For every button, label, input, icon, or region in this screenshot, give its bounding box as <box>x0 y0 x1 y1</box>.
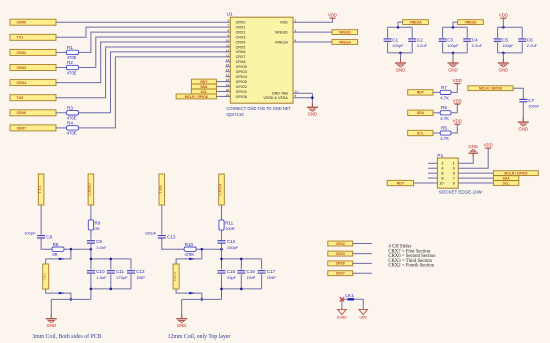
svg-text:RDY: RDY <box>397 181 405 185</box>
svg-text:SDA: SDA <box>503 176 511 180</box>
svg-text:13: 13 <box>226 53 230 57</box>
svg-text:VDD: VDD <box>453 119 462 124</box>
svg-text:4.7K: 4.7K <box>440 136 449 141</box>
svg-text:C10: C10 <box>96 269 105 274</box>
svg-text:TX5: TX5 <box>17 96 24 100</box>
svg-text:TX5: TX5 <box>158 185 163 194</box>
svg-text:SCL: SCL <box>417 131 424 135</box>
svg-text:R9: R9 <box>95 221 101 226</box>
svg-text:C1: C1 <box>392 37 398 42</box>
svg-text:R4: R4 <box>67 121 73 126</box>
svg-text:CRX0: CRX0 <box>17 21 27 25</box>
svg-text:CRX5: CRX5 <box>236 45 246 49</box>
svg-text:GPIO4: GPIO4 <box>236 75 247 79</box>
svg-text:100pF: 100pF <box>392 43 404 48</box>
svg-text:VDD: VDD <box>280 21 288 25</box>
svg-text:R7: R7 <box>441 85 447 90</box>
svg-text:2.2uF: 2.2uF <box>417 43 428 48</box>
svg-text:CRX2: CRX2 <box>236 30 246 34</box>
svg-text:470K: 470K <box>185 252 195 257</box>
svg-text:CRX6: CRX6 <box>336 262 345 266</box>
svg-text:GPIO6: GPIO6 <box>236 95 247 99</box>
svg-text:C14: C14 <box>227 239 236 244</box>
svg-text:CRX7: CRX7 <box>236 55 246 59</box>
svg-text:100pF: 100pF <box>145 231 157 236</box>
svg-text:100R: 100R <box>225 226 235 231</box>
svg-text:VDD: VDD <box>499 13 508 18</box>
svg-text:R3: R3 <box>67 105 73 110</box>
svg-text:CRX3: CRX3 <box>236 35 246 39</box>
svg-text:C7: C7 <box>528 98 534 103</box>
svg-text:C2: C2 <box>417 37 423 42</box>
svg-text:GND: GND <box>499 67 509 72</box>
svg-text:R11: R11 <box>225 221 234 226</box>
svg-text:GND: GND <box>396 67 406 72</box>
svg-text:470E: 470E <box>67 131 77 136</box>
svg-text:2.2uF: 2.2uF <box>472 43 483 48</box>
svg-text:VREGA: VREGA <box>275 40 288 44</box>
svg-text:GND: GND <box>177 323 187 328</box>
svg-text:GPIO3: GPIO3 <box>236 70 247 74</box>
svg-text:CRX2 = Fourth Section: CRX2 = Fourth Section <box>388 263 434 268</box>
svg-text:CRX7: CRX7 <box>17 126 27 130</box>
svg-text:0R: 0R <box>95 226 100 231</box>
svg-text:MCLR / GPIO6: MCLR / GPIO6 <box>504 171 527 175</box>
svg-text:CRX3: CRX3 <box>17 66 27 70</box>
svg-text:SDA: SDA <box>417 111 425 115</box>
svg-text:11: 11 <box>226 43 229 47</box>
svg-text:GPIO1: GPIO1 <box>236 90 247 94</box>
svg-text:0R: 0R <box>52 252 57 257</box>
svg-text:R10: R10 <box>185 242 194 247</box>
svg-text:C11: C11 <box>116 269 125 274</box>
svg-text:10: 10 <box>226 38 230 42</box>
svg-text:12mm Coil, only Top layer: 12mm Coil, only Top layer <box>168 334 231 340</box>
svg-text:Coil 12: Coil 12 <box>173 272 177 282</box>
svg-text:VDD: VDD <box>484 143 493 148</box>
svg-text:VDD: VDD <box>328 13 337 18</box>
svg-text:C12: C12 <box>136 269 145 274</box>
svg-text:C8: C8 <box>46 235 52 240</box>
svg-text:C3: C3 <box>447 37 453 42</box>
svg-text:R6: R6 <box>441 105 447 110</box>
svg-text:R8: R8 <box>53 242 59 247</box>
svg-text:GND: GND <box>47 323 57 328</box>
svg-text:16: 16 <box>226 68 230 72</box>
svg-text:GPIO0: GPIO0 <box>236 65 247 69</box>
svg-text:C4: C4 <box>472 37 478 42</box>
svg-text:12: 12 <box>226 48 230 52</box>
svg-text:CRX1: CRX1 <box>236 25 246 29</box>
svg-text:TX1: TX1 <box>17 36 24 40</box>
svg-text:CRX4: CRX4 <box>218 183 223 196</box>
svg-text:17: 17 <box>226 73 230 77</box>
svg-text:DNP: DNP <box>267 275 276 280</box>
svg-text:SOCKET EDGE-10W: SOCKET EDGE-10W <box>439 189 483 194</box>
svg-text:CRX7: CRX7 <box>336 272 345 276</box>
svg-text:GND: GND <box>448 67 458 72</box>
svg-text:33pF: 33pF <box>227 275 237 280</box>
svg-text:CRX0: CRX0 <box>87 183 92 196</box>
svg-text:14: 14 <box>226 58 230 62</box>
svg-text:C9: C9 <box>96 239 102 244</box>
svg-text:CRX6: CRX6 <box>17 111 27 115</box>
svg-text:VDD: VDD <box>453 78 462 83</box>
svg-text:1.0nF: 1.0nF <box>97 275 108 280</box>
svg-text:4.7K: 4.7K <box>440 116 449 121</box>
svg-text:100pF: 100pF <box>24 231 36 236</box>
svg-text:C6: C6 <box>527 37 533 42</box>
svg-text:VREGA: VREGA <box>409 20 422 24</box>
svg-text:RDY: RDY <box>200 80 208 84</box>
svg-text:TX1: TX1 <box>37 185 42 194</box>
svg-text:CRX2: CRX2 <box>17 51 27 55</box>
svg-text:100pF: 100pF <box>502 43 514 48</box>
svg-text:CRX3: CRX3 <box>336 252 345 256</box>
svg-text:SCL: SCL <box>201 90 208 94</box>
svg-text:Coil 3: Coil 3 <box>43 272 47 280</box>
svg-text:MCLR / GPIO6: MCLR / GPIO6 <box>185 95 208 99</box>
svg-text:VREGD: VREGD <box>339 30 352 34</box>
svg-text:U1: U1 <box>227 11 233 17</box>
svg-text:EGND: EGND <box>337 316 347 320</box>
svg-text:SDA: SDA <box>200 85 208 89</box>
svg-text:100nF: 100nF <box>528 104 540 109</box>
svg-text:VSSD & VSSA: VSSD & VSSA <box>263 96 288 100</box>
svg-text:9: 9 <box>453 180 455 185</box>
svg-text:MCLR / GPIO6: MCLR / GPIO6 <box>479 87 502 91</box>
svg-text:GND: GND <box>359 316 367 320</box>
svg-text:GPIO2: GPIO2 <box>236 85 247 89</box>
svg-text:1.0nF: 1.0nF <box>96 245 107 250</box>
svg-text:15: 15 <box>226 63 230 67</box>
svg-text:DNP: DNP <box>247 275 256 280</box>
svg-text:IQS7210: IQS7210 <box>226 112 244 117</box>
svg-text:GND: GND <box>468 144 478 149</box>
svg-text:GND: GND <box>308 112 318 117</box>
svg-text:SCL: SCL <box>503 181 510 185</box>
svg-text:4.7K: 4.7K <box>440 95 449 100</box>
svg-text:CRX8: CRX8 <box>236 60 246 64</box>
svg-text:C15: C15 <box>227 269 236 274</box>
svg-text:R2: R2 <box>67 60 73 65</box>
svg-text:RDY: RDY <box>417 91 425 95</box>
svg-text:100pF: 100pF <box>447 43 459 48</box>
svg-text:CRX0: CRX0 <box>236 21 246 25</box>
svg-text:CRX6: CRX6 <box>236 50 246 54</box>
svg-text:C5: C5 <box>502 37 508 42</box>
svg-text:CRX4: CRX4 <box>17 81 27 85</box>
svg-text:VREGD: VREGD <box>275 30 288 34</box>
svg-text:DNP: DNP <box>137 275 146 280</box>
svg-text:100pF: 100pF <box>227 245 239 250</box>
svg-text:R1: R1 <box>67 45 73 50</box>
svg-text:VREGA: VREGA <box>339 40 352 44</box>
svg-text:470E: 470E <box>67 70 77 75</box>
svg-text:GND: GND <box>519 127 529 132</box>
svg-text:CRX2: CRX2 <box>336 242 345 246</box>
svg-text:R5: R5 <box>441 125 447 130</box>
svg-text:C13: C13 <box>167 235 176 240</box>
svg-text:C16: C16 <box>247 269 256 274</box>
svg-text:CONNECT GND TAB TO GND NET: CONNECT GND TAB TO GND NET <box>226 106 291 111</box>
svg-text:GPIO5: GPIO5 <box>236 80 247 84</box>
svg-text:CRX4: CRX4 <box>236 40 246 44</box>
svg-text:270pF: 270pF <box>116 275 128 280</box>
svg-text:2.2uF: 2.2uF <box>527 43 538 48</box>
svg-text:3mm Coil, Both sides of PCB: 3mm Coil, Both sides of PCB <box>32 333 101 340</box>
svg-text:VREGD: VREGD <box>464 20 477 24</box>
svg-text:GND TAB: GND TAB <box>272 92 289 96</box>
svg-text:VDD: VDD <box>453 98 462 103</box>
svg-text:C17: C17 <box>267 269 276 274</box>
